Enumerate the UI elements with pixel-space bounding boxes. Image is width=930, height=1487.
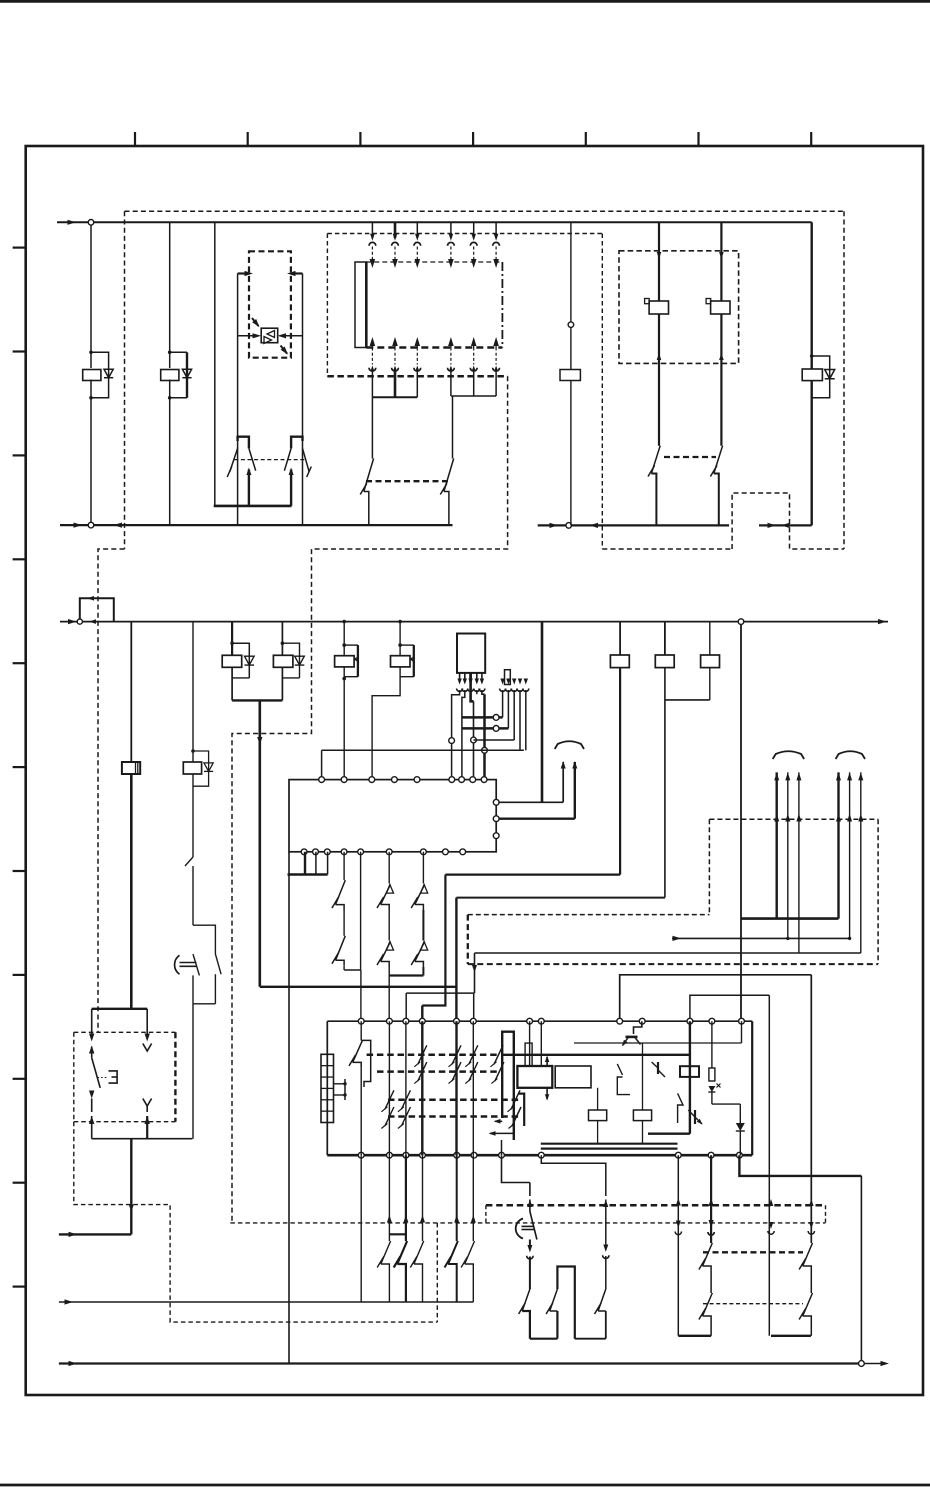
wire chain C-D join	[389, 974, 423, 976]
relay block bottom pin	[420, 1152, 426, 1158]
dashed region mid left edge	[467, 915, 469, 965]
arrow return right b	[590, 523, 599, 528]
wire test shaft x798	[798, 772, 800, 953]
arrow return bus into boundary	[114, 522, 123, 527]
relay coil K2	[161, 370, 179, 381]
driver block U3	[457, 634, 485, 673]
relay block left edge	[326, 1021, 328, 1155]
wire block col 473	[472, 1021, 474, 1155]
contact chain C	[388, 852, 390, 884]
node mesh d	[482, 747, 488, 753]
wire block pin feed b	[690, 995, 769, 1021]
wire R4 to R3 join	[665, 699, 710, 701]
wire mesh pin4 heavy	[482, 690, 485, 694]
relay coil x400	[391, 656, 411, 667]
arrow merged drop	[257, 737, 262, 745]
wire block pin feed a drop	[810, 975, 812, 1243]
dashed link chains bold	[703, 1251, 803, 1253]
wire pair merge bar	[232, 699, 282, 701]
wire K2 diode branch	[170, 351, 187, 353]
wire pin 541 jog	[541, 1155, 606, 1196]
wire relay drop x659	[658, 222, 660, 301]
resistor R5 vertical	[711, 1021, 713, 1068]
manual actuator symbol	[109, 1071, 118, 1083]
relay block bottom edge	[327, 1154, 752, 1157]
wire mesh bold a	[462, 716, 503, 719]
wire connector column 3 upper	[416, 222, 418, 238]
relay block top pin	[454, 1018, 460, 1024]
dashed left box right heavy	[174, 1032, 176, 1121]
driver leg 1	[459, 673, 461, 683]
relay block bottom pin	[708, 1152, 714, 1158]
relay block right edge	[751, 1021, 753, 1155]
page bottom rule	[0, 1484, 930, 1487]
block inner bold row	[502, 1054, 690, 1056]
wire block col 456 heavy	[455, 1021, 457, 1155]
wire chain A join	[344, 969, 361, 971]
dashed fork link	[234, 459, 305, 461]
wire connector column 4 lower	[448, 337, 454, 346]
wire block pin feed b drop	[768, 995, 770, 1336]
wire socket2 drop	[507, 690, 509, 728]
contact blade 3	[605, 1311, 607, 1339]
dashed link S1-S2	[366, 480, 448, 482]
diode D1	[104, 369, 113, 378]
controller bottom pin	[421, 849, 427, 855]
arrow sense line	[673, 936, 682, 941]
wire LED right drop	[302, 274, 304, 526]
wire top supply bus	[57, 221, 812, 223]
wire signal line	[59, 1301, 473, 1303]
relay block top pin	[617, 1018, 623, 1024]
transistor Q3	[678, 1093, 683, 1123]
wire connector column 6 dashed gap	[495, 247, 497, 260]
wire test arrow b	[574, 762, 576, 819]
dashed boundary bottom left jog	[98, 549, 125, 1032]
controller bottom pin	[386, 849, 392, 855]
wire connector column 1 dashed gap	[371, 247, 373, 260]
wire test shaft x860	[860, 772, 862, 953]
diode D4	[204, 763, 213, 772]
contact chain below 406 heavy	[405, 1155, 407, 1219]
wire test shaft x838	[837, 772, 839, 918]
block inner h line	[574, 1042, 742, 1044]
wire connector column 2 upper	[394, 222, 397, 238]
wire test arrow a	[562, 762, 564, 802]
node return right	[566, 523, 572, 529]
wire connector column 4 dashed gap	[450, 247, 452, 260]
wire relay drop x721	[720, 222, 722, 301]
diode D5	[245, 656, 255, 665]
contact chain below 422	[422, 1155, 424, 1219]
wire LED cathode	[282, 335, 303, 337]
wire top pin to inner	[741, 1021, 743, 1043]
coil armature frame	[525, 1043, 532, 1066]
relay coil K5	[802, 369, 822, 381]
jumper loop	[80, 598, 114, 621]
wire connector column 6 upper	[495, 222, 497, 238]
contact blade 2	[556, 1311, 558, 1339]
wire loop x357	[344, 644, 358, 646]
release contact blade lower	[522, 1289, 530, 1311]
arrow bus2 left	[68, 619, 77, 624]
coil box L2	[555, 1066, 591, 1088]
controller top pin	[369, 777, 375, 783]
controller box U4	[289, 780, 496, 852]
frame tick marks top	[134, 132, 136, 146]
driver leg 3	[469, 673, 472, 683]
chain 678 bottom U	[678, 1335, 711, 1337]
controller bottom pin	[460, 849, 466, 855]
row contact x473 r1	[469, 1045, 478, 1064]
row terminal contact r4	[512, 1107, 521, 1126]
wire controller left edge extension	[288, 852, 290, 1364]
wire bridge pin right	[473, 993, 475, 1021]
latch bar 2	[519, 1094, 524, 1126]
wire bottom bus	[59, 1362, 862, 1364]
wire K1 diode branch	[91, 352, 109, 398]
dashed connector box top	[327, 233, 602, 235]
wire block col 406	[405, 1021, 407, 1155]
relay block top pin	[709, 1018, 715, 1024]
wire connector column 1 upper	[371, 222, 373, 238]
row contact x473 r2	[469, 1062, 478, 1081]
zener Z1	[708, 1086, 715, 1092]
wire R3 net horizontal	[456, 897, 665, 899]
transistor Q2	[652, 1062, 658, 1068]
wire P1 diode branch	[232, 643, 249, 678]
wire mesh c	[474, 739, 515, 741]
dashed step connector	[485, 1205, 487, 1223]
dashed right end connector	[825, 1205, 827, 1223]
page top rule	[0, 0, 930, 3]
controller bottom pin	[324, 849, 330, 855]
coil box L5	[633, 1110, 651, 1121]
node K5 top	[810, 354, 814, 358]
wire block col 422 heavy	[421, 1021, 423, 1155]
dashed connector box left edge	[326, 234, 328, 377]
relay block bottom pin	[403, 1152, 409, 1158]
row contact x405 r4	[401, 1107, 410, 1126]
row contact x456 r2	[452, 1062, 461, 1081]
dashed left path down	[74, 1122, 438, 1322]
socket pin 3	[512, 679, 516, 685]
wire diode to pin	[739, 1131, 741, 1155]
wire chain join	[192, 975, 194, 1003]
wire connector column 5 dashed gap	[473, 247, 475, 260]
brace group right b	[836, 751, 865, 759]
wire socket4 drop	[519, 690, 521, 750]
controller top pin	[481, 777, 487, 783]
relay block top edge	[327, 1020, 752, 1022]
driver leg 4	[476, 673, 478, 683]
wire return bus far right	[759, 524, 812, 526]
resistor R2	[610, 655, 629, 668]
relay block bottom pin	[387, 1152, 393, 1158]
wire LED left drop	[237, 274, 239, 526]
wire connector column 4 upper	[450, 222, 452, 238]
wire fork feeder	[214, 222, 216, 506]
row contact x389 r3	[385, 1090, 394, 1109]
horn symbol a	[516, 1219, 523, 1239]
chain bottom U1	[530, 1338, 558, 1340]
controller top pin	[449, 777, 455, 783]
relay block bottom pin	[499, 1152, 505, 1158]
relay block dashed row 2	[377, 1070, 499, 1073]
wire connector column 2 dashed gap	[394, 247, 396, 260]
socket pin 4	[518, 679, 522, 685]
diode D6	[295, 656, 305, 665]
release chain mid	[529, 1240, 531, 1250]
arrow bus2 left b	[89, 619, 96, 624]
contact S2	[452, 396, 454, 459]
contact 811 lower	[803, 1293, 813, 1316]
relay coil K1	[83, 370, 101, 381]
wire sense line	[672, 937, 850, 939]
wire latch to pin	[501, 1140, 503, 1155]
dashed link K3-K4	[664, 456, 716, 458]
dashed boundary upper left edge	[124, 211, 126, 549]
wire connector column 2 lower	[392, 337, 398, 346]
row terminal contact r1	[494, 1045, 503, 1064]
dashed link chains light	[703, 1303, 803, 1305]
wire K11 to pin	[372, 667, 400, 780]
relay block dashed row 3	[388, 1099, 519, 1102]
controller right pin b	[493, 816, 499, 822]
dotted actuator link	[98, 1077, 108, 1079]
brace test pair	[555, 741, 584, 749]
wire chain to bottom bar	[192, 1004, 194, 1139]
arrow bus2 right end	[878, 619, 887, 624]
wire block out 361	[360, 1155, 362, 1302]
wire drive heavy line	[742, 917, 839, 920]
wire chain 811 arrows	[809, 1199, 814, 1206]
fork actuator left	[238, 437, 249, 449]
relay block bottom pin	[358, 1152, 364, 1158]
wire switch leg b	[146, 1009, 148, 1036]
controller top pin	[459, 777, 465, 783]
wire connector column 5 upper	[473, 222, 475, 238]
relay block top pin	[538, 1018, 544, 1024]
dashed region right box right	[877, 819, 879, 964]
resistor R1	[560, 370, 580, 381]
brace group right a	[773, 751, 804, 759]
wire switch leg a	[91, 1009, 93, 1036]
wire switch leg b lower	[143, 1099, 152, 1107]
relay coil K7	[183, 762, 201, 774]
contact chain D	[422, 852, 424, 884]
dashed region mid bottom	[468, 963, 878, 965]
arrow top bus	[68, 220, 77, 225]
wire socket3 drop	[513, 690, 515, 740]
chain 771 bottom U	[771, 1335, 811, 1337]
node K2 bottom	[168, 396, 172, 400]
manual switch blade	[92, 1058, 101, 1088]
contact CB1	[360, 1021, 362, 1040]
LED package U2	[261, 328, 278, 343]
node sense a	[786, 937, 789, 940]
wire R2 net drop	[422, 875, 445, 1006]
node K7	[191, 749, 195, 753]
wire return bus left	[60, 524, 453, 526]
arrow return right a	[550, 523, 559, 528]
node K2 top	[168, 351, 172, 355]
connector block body	[355, 262, 366, 348]
wire merged drop heavy	[258, 700, 261, 986]
wire heavy exit left	[130, 1139, 132, 1235]
wire connector group A join	[372, 396, 417, 398]
dashed region right box left	[708, 819, 710, 914]
wire pin b to test point	[499, 818, 575, 820]
node bus2 right	[738, 619, 744, 625]
row contact x456 r1	[452, 1045, 461, 1064]
node P2	[281, 641, 285, 645]
controller bottom pin	[301, 849, 307, 855]
LED emission arrow upper	[252, 318, 259, 326]
controller bottom pin	[443, 849, 449, 855]
resistor R3	[655, 655, 674, 668]
dashed left box top	[74, 1031, 176, 1033]
dashed boundary notch	[732, 493, 844, 549]
wire relay K5 feed	[811, 222, 813, 369]
relay block top pin	[470, 1018, 476, 1024]
relay coil K3	[649, 301, 668, 314]
relay block top pin	[387, 1018, 393, 1024]
contact chain below 456	[456, 1155, 458, 1219]
dashed row bold lower	[486, 1204, 826, 1207]
dashed lower boundary drop	[436, 1223, 438, 1322]
controller top pin	[414, 777, 420, 783]
wire K5 to return	[811, 381, 813, 526]
block inner double bar	[541, 1143, 678, 1145]
arrow feeder crossing	[472, 965, 477, 973]
dashed region mid top jog	[468, 914, 710, 916]
wire chain 678	[677, 1155, 679, 1336]
dashed path to lower circuit	[232, 376, 508, 1223]
wire resistor R4 drop	[709, 622, 711, 655]
coil box L4	[589, 1110, 607, 1121]
fork actuator right	[291, 437, 302, 449]
connector stub left	[238, 272, 248, 274]
wire connector column 3 lower	[415, 337, 421, 346]
contact K4	[714, 446, 723, 474]
wire sensor drop	[570, 222, 572, 369]
arrow chain 606	[603, 1200, 608, 1208]
wire connector column 1 lower	[370, 337, 376, 346]
horn symbol b	[175, 955, 180, 974]
relay block top pin	[358, 1018, 364, 1024]
wire return bus right	[538, 524, 729, 526]
wire pin a to test point	[499, 801, 563, 803]
wire bypass B	[360, 852, 362, 970]
wire mesh pin1	[452, 690, 460, 780]
wire K6 bottom bar	[92, 1008, 148, 1010]
relay block top pin	[527, 1018, 533, 1024]
socket pin 1	[500, 679, 504, 685]
relay block top pin	[419, 1018, 425, 1024]
row contact x422 r1	[418, 1045, 427, 1064]
controller bottom pin	[341, 849, 347, 855]
socket pin 2	[506, 679, 510, 685]
contact S1	[371, 397, 373, 458]
resistor R4	[701, 655, 720, 668]
coil box L1	[517, 1066, 552, 1088]
node bottom bus right	[859, 1361, 865, 1367]
arrow coil down	[546, 1088, 548, 1099]
relay block top pin	[639, 1018, 645, 1024]
node sense b	[848, 937, 851, 940]
wire connector column 6 lower	[493, 337, 499, 346]
relay coil x344	[335, 656, 355, 667]
node K1 bottom	[89, 396, 93, 400]
wire test shaft x787	[787, 772, 789, 938]
wire feeder drop	[474, 953, 476, 993]
dashed boundary upper right edge	[843, 211, 845, 549]
node K1 top	[89, 351, 93, 355]
controller top pin	[341, 777, 347, 783]
block inner bold col	[689, 1021, 691, 1133]
wire block out right heavy	[739, 1155, 861, 1176]
wire K7 down	[192, 774, 194, 857]
arrow far right a	[768, 523, 777, 528]
contact CC1	[617, 1064, 622, 1075]
wire block pin feed a	[620, 975, 812, 1021]
wire K5 diode branch	[812, 356, 830, 398]
wire relay K7 drop	[192, 622, 194, 762]
coil box L3	[680, 1066, 699, 1077]
wire K6 down heavy	[130, 774, 133, 1009]
node mesh b	[493, 726, 499, 732]
latch bar	[502, 1032, 514, 1140]
relay coil K9	[273, 655, 293, 667]
wire resistor R2 drop	[619, 622, 621, 655]
wire bottom pins group heavy	[304, 852, 306, 875]
node mesh pin1	[449, 738, 455, 744]
wire loop x413	[400, 644, 414, 646]
wire resistor R3 drop	[664, 622, 666, 655]
relay block bottom pin	[471, 1152, 477, 1158]
arrow far right b	[781, 523, 790, 528]
wire switch leg a lower	[89, 1091, 94, 1099]
wire LED anode	[238, 335, 257, 337]
wire socket5 drop	[525, 690, 527, 750]
node P1	[230, 641, 234, 645]
wire fork bus bar	[214, 505, 292, 508]
contact 811 upper	[803, 1243, 813, 1266]
arrow coil up	[546, 1057, 548, 1066]
LED emission arrow lower	[281, 346, 288, 354]
connector flag	[505, 670, 511, 685]
driver leg 5	[481, 673, 483, 683]
wire pair P1 drop	[231, 622, 233, 656]
wire exit arrow line	[59, 1233, 131, 1235]
wire K7 chain lower	[192, 866, 194, 925]
wire relay K1 drop	[90, 225, 92, 368]
contact chain A	[343, 852, 345, 880]
dashed connector box bottom heavy	[327, 375, 507, 378]
dashed LED box	[249, 251, 291, 357]
node return bus	[88, 522, 94, 528]
connector stub right	[292, 272, 303, 274]
node bus2 left	[77, 619, 82, 624]
controller right pin a	[493, 799, 499, 805]
dashed connector box right edge	[601, 234, 603, 550]
node mesh c	[471, 737, 477, 743]
arrow latch a	[495, 1120, 502, 1122]
wire mesh bold b	[462, 727, 509, 730]
relay block top pin	[739, 1018, 745, 1024]
dashed region right box top	[709, 818, 878, 820]
